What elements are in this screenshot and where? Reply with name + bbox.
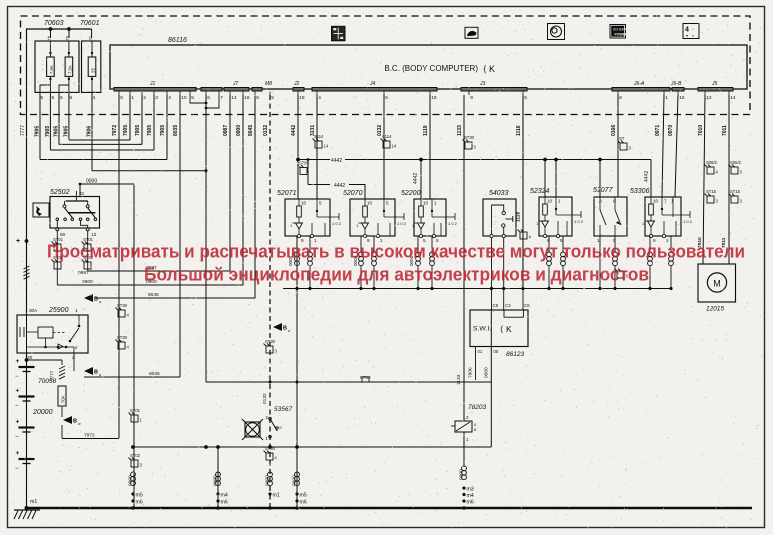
svg-text:ST30: ST30 xyxy=(464,135,475,140)
svg-text:m6: m6 xyxy=(300,500,307,506)
svg-text:▾: ▾ xyxy=(686,33,688,38)
svg-text:1 0 2: 1 0 2 xyxy=(448,221,458,226)
svg-text:7: 7 xyxy=(664,199,667,204)
svg-text:52502: 52502 xyxy=(50,189,70,196)
svg-text:ST30: ST30 xyxy=(117,335,128,340)
svg-text:1: 1 xyxy=(665,95,668,101)
svg-text:10: 10 xyxy=(181,95,187,101)
svg-text:6: 6 xyxy=(256,95,259,101)
svg-text:0000: 0000 xyxy=(459,469,465,480)
svg-text:25900: 25900 xyxy=(48,307,69,314)
svg-text:m4: m4 xyxy=(221,493,228,499)
svg-text:K: K xyxy=(506,324,512,334)
svg-text:m4: m4 xyxy=(467,493,474,499)
svg-text:B.C. (BODY COMPUTER): B.C. (BODY COMPUTER) xyxy=(384,64,478,73)
svg-text:8035: 8035 xyxy=(173,125,179,136)
svg-text:7010: 7010 xyxy=(698,125,704,136)
svg-text:E: E xyxy=(66,36,69,41)
svg-text:m6: m6 xyxy=(221,500,228,506)
svg-text:54033: 54033 xyxy=(489,190,509,197)
svg-text:70601: 70601 xyxy=(80,20,100,27)
svg-text:C3: C3 xyxy=(505,303,511,308)
svg-text:19: 19 xyxy=(431,95,437,101)
svg-text:−: − xyxy=(15,466,19,472)
svg-text:14: 14 xyxy=(324,144,329,149)
svg-text:7905: 7905 xyxy=(160,125,166,136)
svg-text:0132: 0132 xyxy=(263,125,269,136)
svg-text:2: 2 xyxy=(466,415,469,420)
svg-text:C5: C5 xyxy=(493,303,499,308)
svg-text:w: w xyxy=(78,422,81,426)
svg-text:2: 2 xyxy=(143,95,146,101)
svg-text:5: 5 xyxy=(41,95,44,101)
svg-text:1 0 2: 1 0 2 xyxy=(397,221,407,226)
svg-text:10: 10 xyxy=(547,199,553,204)
svg-text:7777: 7777 xyxy=(20,125,26,136)
svg-text:4: 4 xyxy=(168,95,171,101)
svg-text:5: 5 xyxy=(386,201,389,206)
svg-text:1: 1 xyxy=(558,199,561,204)
svg-text:8045: 8045 xyxy=(248,125,254,136)
svg-text:1: 1 xyxy=(671,199,674,204)
svg-text:7905: 7905 xyxy=(123,125,129,136)
svg-text:SCHEMA: SCHEMA xyxy=(613,28,628,32)
svg-text:K: K xyxy=(489,64,495,74)
svg-text:J3: J3 xyxy=(479,81,486,87)
svg-text:52071: 52071 xyxy=(277,190,297,197)
svg-text:m5: m5 xyxy=(300,493,307,499)
svg-text:S114: S114 xyxy=(382,134,392,139)
svg-text:−: − xyxy=(15,404,19,410)
svg-text:J4: J4 xyxy=(369,81,376,87)
svg-text:7,5A: 7,5A xyxy=(49,65,54,74)
svg-text:S08/2: S08/2 xyxy=(706,160,718,165)
svg-text:4442: 4442 xyxy=(334,183,345,189)
svg-text:10: 10 xyxy=(367,201,373,206)
svg-text:B: B xyxy=(94,370,98,376)
svg-text:⟨: ⟨ xyxy=(500,324,503,334)
svg-text:0000: 0000 xyxy=(483,367,489,378)
svg-text:10: 10 xyxy=(653,199,659,204)
svg-text:m1: m1 xyxy=(30,499,37,505)
svg-text:J5: J5 xyxy=(711,81,718,87)
svg-text:16: 16 xyxy=(679,95,685,101)
svg-text:0132: 0132 xyxy=(262,393,268,404)
svg-text:0000: 0000 xyxy=(265,475,271,486)
svg-text:m3: m3 xyxy=(467,487,474,493)
svg-text:a: a xyxy=(99,300,101,304)
svg-text:+: + xyxy=(16,238,20,245)
svg-text:1: 1 xyxy=(75,308,78,314)
svg-text:52070: 52070 xyxy=(343,190,363,197)
svg-text:Большой энциклопедии для автоэ: Большой энциклопедии для автоэлектриков … xyxy=(144,265,649,285)
svg-text:7906: 7906 xyxy=(87,126,93,137)
svg-text:0000: 0000 xyxy=(292,475,298,486)
svg-text:14: 14 xyxy=(730,95,736,101)
svg-text:6: 6 xyxy=(60,95,63,101)
svg-text:5: 5 xyxy=(385,95,388,101)
svg-text:86116: 86116 xyxy=(168,37,187,44)
svg-text:3: 3 xyxy=(155,95,158,101)
svg-text:2900: 2900 xyxy=(82,279,93,285)
svg-text:2: 2 xyxy=(72,355,75,361)
svg-text:6: 6 xyxy=(207,95,210,101)
svg-text:S114: S114 xyxy=(314,134,324,139)
svg-text:ST30: ST30 xyxy=(117,303,128,308)
svg-text:10: 10 xyxy=(423,201,429,206)
svg-text:0987: 0987 xyxy=(78,270,89,276)
svg-text:m5: m5 xyxy=(136,493,143,499)
svg-text:+: + xyxy=(16,358,20,365)
svg-text:4: 4 xyxy=(93,95,96,101)
svg-text:18: 18 xyxy=(244,95,250,101)
svg-text:6: 6 xyxy=(619,95,622,101)
svg-text:S.W.I.: S.W.I. xyxy=(473,326,491,333)
svg-text:8035: 8035 xyxy=(149,371,160,377)
svg-text:4442: 4442 xyxy=(413,173,419,184)
svg-text:1: 1 xyxy=(434,201,437,206)
svg-text:ST: ST xyxy=(619,136,625,141)
svg-text:▿: ▿ xyxy=(692,33,694,38)
svg-text:86123: 86123 xyxy=(506,351,524,358)
svg-text:1116: 1116 xyxy=(516,125,522,136)
svg-text:7905: 7905 xyxy=(45,126,51,137)
svg-text:5: 5 xyxy=(319,201,322,206)
svg-text:01: 01 xyxy=(478,349,483,354)
svg-text:0970: 0970 xyxy=(668,125,674,136)
svg-text:52324: 52324 xyxy=(530,188,550,195)
svg-text:7972: 7972 xyxy=(112,125,118,136)
svg-text:5: 5 xyxy=(271,95,274,101)
svg-text:M8: M8 xyxy=(265,81,272,87)
svg-text:9: 9 xyxy=(470,95,473,101)
svg-text:5: 5 xyxy=(52,95,55,101)
svg-text:14: 14 xyxy=(231,95,237,101)
svg-text:1: 1 xyxy=(131,95,134,101)
svg-text:a: a xyxy=(99,373,101,377)
svg-text:M: M xyxy=(713,279,721,289)
svg-text:−: − xyxy=(15,435,19,441)
svg-text:⟨: ⟨ xyxy=(483,64,487,74)
svg-text:7905: 7905 xyxy=(54,126,60,137)
svg-text:S705: S705 xyxy=(299,161,309,166)
svg-text:7905: 7905 xyxy=(63,126,69,137)
svg-text:0987: 0987 xyxy=(223,125,229,136)
svg-text:19: 19 xyxy=(299,95,305,101)
svg-text:25: 25 xyxy=(90,68,95,73)
svg-text:1 0 2: 1 0 2 xyxy=(683,219,693,224)
svg-text:ST01: ST01 xyxy=(130,408,141,413)
svg-text:7,5A: 7,5A xyxy=(67,65,72,74)
svg-text:8: 8 xyxy=(120,95,123,101)
svg-text:05: 05 xyxy=(494,349,499,354)
svg-text:1133: 1133 xyxy=(457,125,463,136)
svg-text:70A: 70A xyxy=(61,395,66,403)
svg-text:1133: 1133 xyxy=(456,374,462,385)
svg-text:C8: C8 xyxy=(524,303,530,308)
svg-text:+: + xyxy=(16,419,20,426)
svg-text:4442: 4442 xyxy=(291,125,297,136)
svg-text:J2: J2 xyxy=(293,81,300,87)
svg-text:7905: 7905 xyxy=(135,125,141,136)
svg-text:53306: 53306 xyxy=(630,188,650,195)
svg-text:ST30: ST30 xyxy=(265,446,276,451)
svg-text:B: B xyxy=(73,419,77,425)
svg-text:52200: 52200 xyxy=(401,190,421,197)
svg-text:70603: 70603 xyxy=(44,20,64,27)
svg-text:B: B xyxy=(283,326,287,332)
svg-text:0900: 0900 xyxy=(236,125,242,136)
svg-text:J6-A: J6-A xyxy=(633,81,645,87)
svg-text:ST15: ST15 xyxy=(730,189,741,194)
svg-text:12015: 12015 xyxy=(706,306,724,313)
svg-text:+: + xyxy=(16,450,20,457)
svg-text:ST15: ST15 xyxy=(706,189,717,194)
svg-text:8045: 8045 xyxy=(148,292,159,298)
svg-text:7905: 7905 xyxy=(147,125,153,136)
svg-text:7011: 7011 xyxy=(722,125,728,136)
svg-text:30A: 30A xyxy=(29,308,38,313)
svg-text:14: 14 xyxy=(392,144,397,149)
svg-text:+: + xyxy=(16,388,20,395)
svg-text:7972: 7972 xyxy=(84,433,95,439)
svg-text:4: 4 xyxy=(318,95,321,101)
svg-text:7: 7 xyxy=(220,95,223,101)
svg-text:5: 5 xyxy=(191,95,194,101)
svg-text:0000: 0000 xyxy=(128,475,134,486)
svg-text:4442: 4442 xyxy=(644,171,650,182)
svg-text:S08/2: S08/2 xyxy=(730,160,742,165)
svg-text:5: 5 xyxy=(524,95,527,101)
svg-text:1: 1 xyxy=(466,437,469,442)
svg-text:E: E xyxy=(48,36,51,41)
svg-text:1119: 1119 xyxy=(423,125,429,136)
svg-text:6: 6 xyxy=(70,95,73,101)
svg-text:0166: 0166 xyxy=(611,125,617,136)
svg-text:70058: 70058 xyxy=(38,378,56,385)
svg-text:J6-B: J6-B xyxy=(670,81,682,87)
svg-text:POWER: POWER xyxy=(615,33,628,37)
svg-text:78203: 78203 xyxy=(468,404,486,411)
svg-text:0000: 0000 xyxy=(213,475,219,486)
svg-text:m6: m6 xyxy=(467,500,474,506)
svg-text:m1: m1 xyxy=(273,493,280,499)
svg-text:0971: 0971 xyxy=(655,125,661,136)
svg-text:ST02: ST02 xyxy=(130,453,141,458)
svg-text:−: − xyxy=(15,374,19,380)
svg-text:7905: 7905 xyxy=(35,126,41,137)
svg-text:53567: 53567 xyxy=(274,406,292,413)
svg-text:J7: J7 xyxy=(232,81,239,87)
svg-text:a: a xyxy=(288,329,290,333)
